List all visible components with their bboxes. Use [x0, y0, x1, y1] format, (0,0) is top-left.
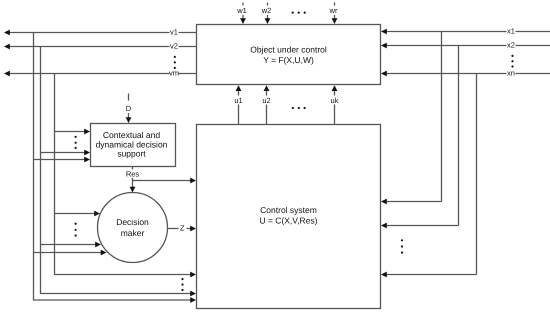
svg-text:Y = F(X,U,W): Y = F(X,U,W) — [263, 55, 314, 65]
svg-text:D: D — [126, 104, 132, 113]
svg-text:wr: wr — [329, 6, 338, 15]
svg-text:u2: u2 — [262, 96, 270, 105]
svg-text:Control system: Control system — [260, 205, 317, 215]
svg-text:v2: v2 — [170, 41, 178, 50]
svg-text:U = C(X,V,Res): U = C(X,V,Res) — [259, 216, 317, 226]
svg-text:maker: maker — [121, 228, 145, 238]
svg-text:uk: uk — [331, 96, 339, 105]
svg-text:Object under control: Object under control — [250, 44, 327, 54]
svg-text:x2: x2 — [507, 40, 515, 49]
svg-text:Res: Res — [126, 169, 140, 178]
svg-text:u1: u1 — [234, 96, 242, 105]
svg-text:w1: w1 — [236, 6, 247, 15]
svg-text:v1: v1 — [170, 27, 178, 36]
svg-text:Contextual and: Contextual and — [103, 130, 160, 140]
svg-text:x1: x1 — [507, 26, 515, 35]
svg-text:xn: xn — [507, 68, 515, 77]
svg-text:support: support — [117, 149, 146, 159]
svg-text:w2: w2 — [261, 6, 272, 15]
svg-text:Decision: Decision — [116, 217, 149, 227]
svg-text:vm: vm — [169, 68, 179, 77]
svg-text:Z: Z — [180, 224, 185, 233]
